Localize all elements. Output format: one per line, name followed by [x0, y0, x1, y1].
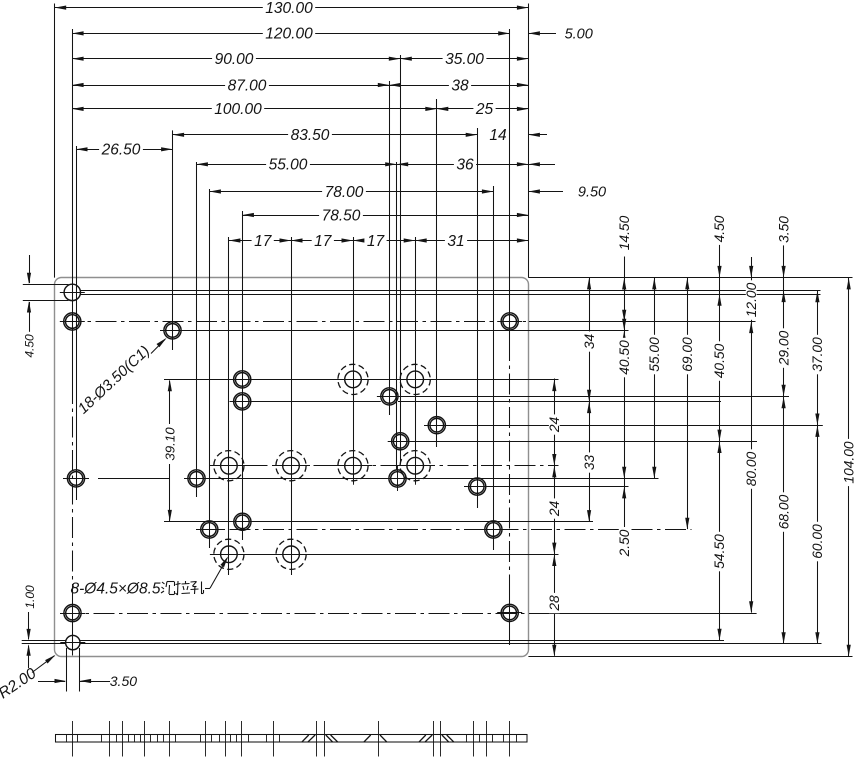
svg-text:24: 24: [547, 417, 562, 434]
svg-text:54.50: 54.50: [712, 534, 727, 569]
svg-text:29.00: 29.00: [776, 330, 791, 366]
svg-text:78.50: 78.50: [322, 207, 361, 224]
svg-text:130.00: 130.00: [265, 0, 313, 17]
svg-text:4.50: 4.50: [712, 215, 727, 242]
svg-text:38: 38: [451, 77, 469, 94]
svg-text:24: 24: [547, 501, 562, 518]
svg-text:12.00: 12.00: [744, 282, 759, 317]
svg-text:87.00: 87.00: [228, 77, 267, 94]
svg-text:39.10: 39.10: [163, 427, 178, 461]
svg-text:35.00: 35.00: [445, 51, 484, 68]
svg-text:3.50: 3.50: [776, 216, 791, 243]
svg-text:17: 17: [254, 233, 273, 250]
svg-text:83.50: 83.50: [291, 127, 330, 144]
svg-text:28: 28: [547, 595, 562, 612]
svg-text:68.00: 68.00: [776, 494, 791, 529]
svg-text:120.00: 120.00: [265, 26, 313, 43]
svg-text:100.00: 100.00: [214, 101, 262, 118]
svg-text:104.00: 104.00: [841, 441, 856, 484]
svg-text:25: 25: [475, 101, 494, 118]
svg-text:40.50: 40.50: [712, 343, 727, 378]
svg-text:80.00: 80.00: [744, 451, 759, 486]
svg-text:78.00: 78.00: [325, 184, 364, 201]
svg-text:37.00: 37.00: [810, 337, 825, 372]
svg-text:3.50: 3.50: [110, 673, 137, 689]
svg-text:34: 34: [582, 334, 597, 350]
svg-text:36: 36: [456, 157, 474, 174]
svg-text:9.50: 9.50: [578, 184, 606, 200]
svg-text:2.50: 2.50: [617, 529, 632, 557]
svg-text:17: 17: [367, 233, 386, 250]
svg-text:4.50: 4.50: [23, 334, 37, 358]
svg-text:90.00: 90.00: [215, 51, 254, 68]
svg-text:31: 31: [447, 233, 464, 250]
svg-text:14.50: 14.50: [617, 215, 632, 250]
svg-text:40.50: 40.50: [617, 340, 632, 375]
svg-text:69.00: 69.00: [680, 337, 695, 372]
svg-text:26.50: 26.50: [101, 142, 141, 159]
svg-text:60.00: 60.00: [810, 524, 825, 559]
svg-text:17: 17: [314, 233, 333, 250]
svg-text:33: 33: [582, 455, 597, 471]
svg-text:14: 14: [489, 127, 507, 144]
svg-text:55.00: 55.00: [647, 337, 662, 372]
svg-text:55.00: 55.00: [269, 157, 308, 174]
svg-text:5.00: 5.00: [565, 26, 593, 42]
svg-text:1.00: 1.00: [23, 585, 37, 609]
svg-text:8-Ø4.5×Ø8.5: 8-Ø4.5×Ø8.5: [71, 581, 161, 598]
